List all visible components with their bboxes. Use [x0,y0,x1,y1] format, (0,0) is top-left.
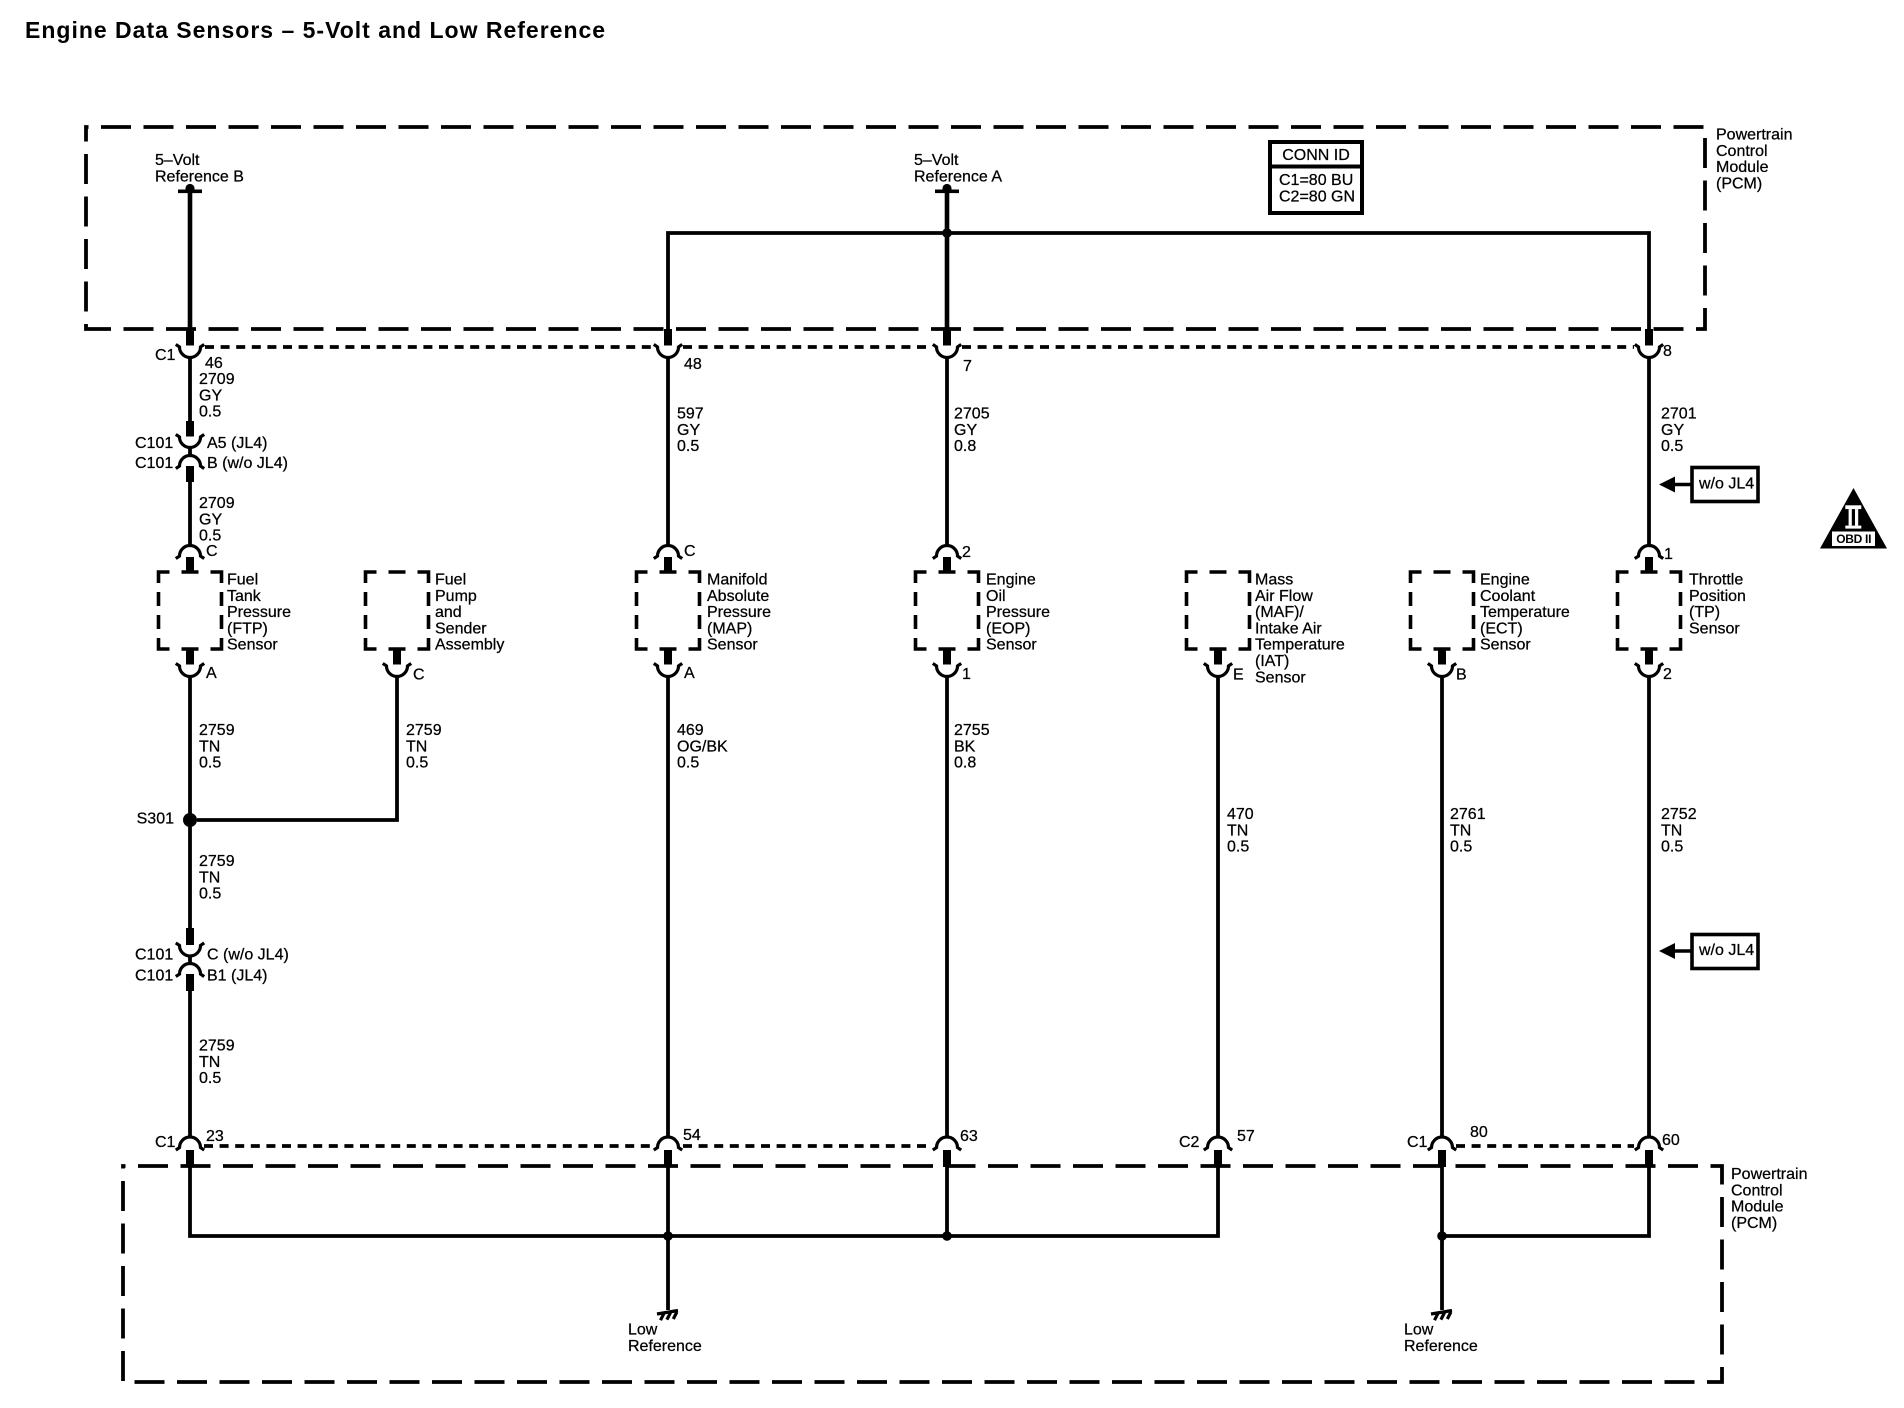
svg-text:C1: C1 [155,1134,176,1151]
sensor MAF/IAT box [1187,572,1345,687]
svg-text:C: C [684,543,696,560]
svg-text:2759TN0.5: 2759TN0.5 [199,722,235,772]
wire 2759 TN 0.5 from FTP [190,676,235,822]
svg-text:C101: C101 [135,947,173,964]
connector EOP pin 1 [933,649,971,683]
svg-text:23: 23 [206,1128,224,1145]
sensor ECT box [1411,572,1570,654]
wire 597 GY 0.5 [668,357,704,544]
svg-text:LowReference: LowReference [1404,1322,1478,1355]
wire 2709 GY 0.5 lower [190,480,235,545]
connector PCM bottom pin 54 [654,1127,701,1167]
connector C101 A5 (JL4) [135,434,267,452]
ground Low Reference right [1404,1311,1478,1355]
connector Fuel Pump pin C [383,649,425,684]
svg-text:2752TN0.5: 2752TN0.5 [1661,806,1697,856]
symbol OBD II [1820,488,1887,549]
connector C101 B (w/o JL4) [135,448,288,482]
svg-text:5–VoltReference B: 5–VoltReference B [155,152,244,185]
connector MAP pin A [654,649,695,682]
svg-text:E: E [1233,667,1244,684]
svg-text:597GY0.5: 597GY0.5 [677,406,704,456]
svg-text:OBD II: OBD II [1836,532,1871,546]
svg-text:2709GY0.5: 2709GY0.5 [199,371,235,421]
wire 2759 TN 0.5 from Fuel Pump to S301 [197,676,442,820]
svg-text:PowertrainControlModule(PCM): PowertrainControlModule(PCM) [1731,1166,1807,1232]
svg-text:A5 (JL4): A5 (JL4) [207,435,267,452]
svg-text:C: C [413,667,425,684]
svg-text:C1=80 BUC2=80 GN: C1=80 BUC2=80 GN [1279,172,1355,205]
junction Reference A rail [942,228,952,238]
wire low reference bus left [190,1165,1218,1236]
svg-text:ThrottlePosition(TP)Sensor: ThrottlePosition(TP)Sensor [1689,572,1746,638]
svg-text:C (w/o JL4): C (w/o JL4) [207,947,289,964]
connector ECT pin B [1428,649,1467,684]
junction pin 54 bus [663,1231,673,1241]
wire 2759 TN 0.5 to PCM 23 [190,989,235,1136]
wire dotted connector line PCM bottom [204,1144,1634,1148]
flag w/o JL4 upper [1659,468,1758,502]
svg-text:LowReference: LowReference [628,1322,702,1355]
svg-text:46: 46 [205,355,223,372]
svg-text:S301: S301 [137,811,174,828]
svg-text:PowertrainControlModule(PCM): PowertrainControlModule(PCM) [1716,127,1792,193]
CONN ID table [1270,142,1362,213]
splice S301 [137,811,197,828]
sensor Fuel Pump and Sender Assembly box [366,572,505,654]
svg-text:C1: C1 [1407,1134,1428,1151]
svg-text:A: A [684,665,695,682]
sensor MAP box [637,572,772,654]
connector C1 pin 7 (PCM) [933,329,972,375]
svg-text:2709GY0.5: 2709GY0.5 [199,495,235,545]
svg-text:2: 2 [962,544,971,561]
svg-text:EngineCoolantTemperature(ECT)S: EngineCoolantTemperature(ECT)Sensor [1480,572,1570,654]
svg-text:A: A [206,665,217,682]
svg-text:C1: C1 [155,347,176,364]
svg-text:2759TN0.5: 2759TN0.5 [199,1038,235,1088]
svg-text:60: 60 [1662,1132,1680,1149]
wire pin 80 to ground [1440,1165,1444,1310]
svg-text:57: 57 [1237,1128,1255,1145]
connector EOP pin 2 [933,544,971,573]
svg-text:2: 2 [1663,666,1672,683]
connector PCM bottom pin 23 [155,1128,224,1167]
sensor FTP box [159,572,292,654]
svg-text:8: 8 [1663,343,1672,360]
svg-text:2755BK0.8: 2755BK0.8 [954,722,990,772]
svg-text:54: 54 [683,1127,701,1144]
svg-text:63: 63 [960,1128,978,1145]
wire dotted connector line C1 top [205,345,1634,349]
junction pin 63 bus [942,1231,952,1241]
svg-text:2759TN0.5: 2759TN0.5 [199,853,235,903]
connector C1 pin 48 (PCM) [654,329,702,373]
connector MAP pin C [654,543,696,573]
svg-text:B (w/o JL4): B (w/o JL4) [207,455,288,472]
connector TP pin 2 [1635,649,1672,683]
PCM bottom dashed box [123,1166,1722,1382]
sensor TP box [1618,572,1746,650]
wire pin 54 to ground [666,1165,670,1310]
ground Low Reference left [628,1311,702,1355]
wire 2752 TN 0.5 [1649,676,1697,1136]
connector C101 C (w/o JL4) [135,943,289,964]
wire 5-Volt Reference A horizontal rail [668,233,1649,345]
svg-text:B: B [1456,667,1467,684]
svg-text:2701GY0.5: 2701GY0.5 [1661,406,1697,456]
connector FTP pin A [176,649,217,682]
connector FTP pin C [176,543,218,573]
svg-text:2759TN0.5: 2759TN0.5 [406,722,442,772]
wire 470 TN 0.5 [1218,676,1254,1136]
svg-text:C101: C101 [135,455,173,472]
junction pin 80 bus [1437,1231,1447,1241]
connector PCM bottom pin 57 [1179,1128,1255,1167]
connector PCM bottom pin 80 [1407,1124,1488,1167]
wire 5-Volt Reference A vertical [945,191,950,331]
svg-text:w/o JL4: w/o JL4 [1698,942,1754,959]
svg-text:w/o JL4: w/o JL4 [1698,476,1754,493]
svg-text:Engine Data Sensors – 5-Volt a: Engine Data Sensors – 5-Volt and Low Ref… [25,17,606,43]
wire 2709 GY 0.5 upper [190,357,235,437]
connector C1 pin 46 (PCM) [176,329,223,372]
wire 2705 GY 0.8 [947,357,990,544]
wire 2755 BK 0.8 [947,676,990,1136]
svg-text:5–VoltReference A: 5–VoltReference A [914,152,1002,185]
svg-text:80: 80 [1470,1124,1488,1141]
connector PCM bottom pin 63 [933,1128,978,1167]
node 5-Volt Reference B [155,152,244,193]
wire 469 OG/BK 0.5 [668,676,728,1136]
connector C1 pin 8 (PCM) [1635,329,1672,360]
svg-text:7: 7 [963,358,972,375]
svg-text:470TN0.5: 470TN0.5 [1227,806,1254,856]
connector MAF pin E [1204,649,1244,684]
svg-text:C: C [206,543,218,560]
svg-text:2761TN0.5: 2761TN0.5 [1450,806,1486,856]
svg-text:EngineOilPressure(EOP)Sensor: EngineOilPressure(EOP)Sensor [986,572,1050,654]
wire 2701 GY 0.5 [1649,357,1697,544]
svg-text:FuelTankPressure(FTP)Sensor: FuelTankPressure(FTP)Sensor [227,572,291,654]
sensor EOP box [916,572,1051,654]
svg-text:B1 (JL4): B1 (JL4) [207,968,267,985]
svg-text:ManifoldAbsolutePressure(MAP)S: ManifoldAbsolutePressure(MAP)Sensor [707,572,771,654]
svg-text:MassAir Flow(MAF)/Intake AirTe: MassAir Flow(MAF)/Intake AirTemperature(… [1255,572,1345,687]
wire 5-Volt Reference B stub [188,191,193,331]
node 5-Volt Reference A [914,152,1002,193]
wire 2761 TN 0.5 [1442,676,1486,1136]
wire pin 63 to bus [945,1165,949,1236]
svg-text:FuelPumpandSenderAssembly: FuelPumpandSenderAssembly [435,572,504,654]
svg-text:C101: C101 [135,968,173,985]
connector PCM bottom pin 60 [1635,1132,1680,1167]
connector TP pin 1 [1635,546,1673,574]
svg-text:C101: C101 [135,435,173,452]
wire 2759 TN 0.5 below S301 [190,820,235,945]
svg-text:48: 48 [684,356,702,373]
svg-text:CONN ID: CONN ID [1282,147,1350,164]
flag w/o JL4 lower [1659,935,1758,969]
svg-text:469OG/BK0.5: 469OG/BK0.5 [677,722,728,772]
svg-text:1: 1 [962,666,971,683]
svg-text:C2: C2 [1179,1134,1200,1151]
connector C101 B1 (JL4) [135,956,267,991]
svg-text:2705GY0.8: 2705GY0.8 [954,406,990,456]
wire low reference bus right [1442,1165,1649,1236]
PCM top dashed box [86,127,1705,329]
svg-text:1: 1 [1664,546,1673,563]
